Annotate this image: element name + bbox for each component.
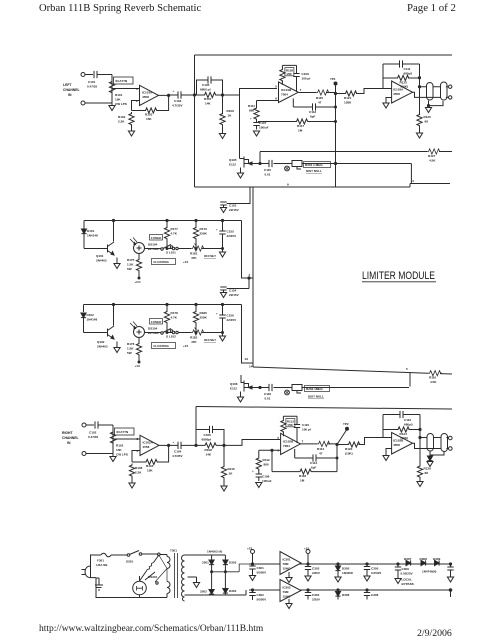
svg-text:C303: C303	[312, 567, 320, 571]
wire	[85, 75, 112, 104]
svg-text:R178: R178	[171, 311, 179, 315]
ground	[419, 127, 421, 134]
svg-text:0.47/35: 0.47/35	[88, 435, 98, 439]
svg-text:15K: 15K	[116, 448, 122, 452]
svg-text:4558: 4558	[142, 95, 149, 99]
svg-text:CHANNEL: CHANNEL	[63, 88, 80, 92]
capacitor C301	[249, 564, 267, 581]
svg-text:4.7/35V: 4.7/35V	[172, 104, 183, 108]
svg-text:+15: +15	[183, 344, 188, 348]
resistor R104	[145, 459, 159, 472]
svg-text:2.2K: 2.2K	[118, 120, 125, 124]
transformer T301 primary winding upper	[167, 549, 177, 569]
limiter box left edge	[252, 187, 254, 367]
offset row wire	[167, 249, 223, 253]
wire	[195, 94, 240, 96]
svg-text:14K: 14K	[205, 102, 211, 106]
wire R127 bus	[260, 152, 452, 164]
svg-text:1M: 1M	[300, 479, 305, 483]
ground input pot	[109, 103, 115, 111]
svg-text:3: 3	[136, 87, 138, 91]
svg-text:14K: 14K	[206, 453, 212, 457]
svg-text:1K: 1K	[228, 114, 233, 118]
svg-text:IC101B: IC101B	[281, 88, 292, 92]
capacitor C115	[264, 160, 272, 177]
svg-text:1N4748(4): 1N4748(4)	[422, 570, 436, 574]
svg-text:C305: C305	[371, 567, 379, 571]
svg-text:4: 4	[412, 179, 414, 183]
op-amp U3 output L	[392, 81, 413, 103]
resistor R180	[193, 305, 207, 333]
ground non-inverting	[383, 98, 392, 109]
svg-text:+15: +15	[183, 260, 188, 264]
svg-text:15HC: 15HC	[283, 595, 292, 599]
svg-text:S L102: S L102	[166, 335, 176, 339]
svg-text:C102: C102	[89, 431, 97, 435]
wire	[337, 438, 392, 445]
wire output to jacks	[413, 438, 450, 449]
svg-text:100 pf: 100 pf	[302, 77, 312, 81]
svg-text:4558: 4558	[393, 443, 400, 447]
label R202 DIST NULL	[305, 386, 330, 399]
wire bus below limiter	[253, 367, 452, 374]
svg-text:5W: 5W	[127, 267, 132, 271]
wire inverting chain	[257, 101, 279, 107]
rectifier diode D303	[200, 572, 214, 595]
ground non-inverting	[383, 449, 392, 461]
svg-text:Q105: Q105	[229, 158, 237, 162]
svg-text:2N4402: 2N4402	[96, 259, 107, 263]
diode D308	[420, 557, 428, 566]
capacitor C112	[400, 411, 413, 427]
svg-text:R115: R115	[316, 96, 323, 100]
resistor R116	[428, 371, 442, 384]
junction	[259, 386, 261, 388]
resistor R123	[383, 75, 420, 88]
svg-text:2501: 2501	[202, 561, 209, 565]
svg-text:14: 14	[249, 365, 253, 369]
junction	[193, 94, 195, 96]
rectifier diode D301	[202, 555, 214, 572]
ground	[112, 444, 114, 457]
resistor R101 input pot	[109, 80, 126, 106]
svg-text:C104: C104	[174, 450, 182, 454]
junction	[418, 86, 420, 88]
svg-text:1M: 1M	[298, 129, 303, 133]
capacitor C113 feedback	[293, 99, 335, 119]
svg-text:R108: R108	[205, 448, 213, 452]
switch S-L102	[145, 329, 177, 339]
svg-text:OFFSET: OFFSET	[204, 338, 216, 342]
resistor R111	[248, 104, 259, 121]
wire to C103	[169, 94, 195, 96]
capacitor C311	[447, 563, 453, 582]
ground	[237, 168, 243, 179]
svg-text:D303: D303	[229, 561, 237, 565]
wire module2 bus	[84, 305, 254, 364]
wire to C104	[169, 444, 196, 446]
wire	[252, 387, 292, 389]
wire feedback loop	[283, 416, 297, 443]
resistor R102	[118, 112, 134, 126]
resistor R105	[280, 68, 294, 82]
svg-text:7064: 7064	[281, 93, 288, 97]
svg-text:C103: C103	[174, 99, 182, 103]
svg-text:R118: R118	[299, 474, 306, 478]
svg-text:C156: C156	[227, 314, 235, 318]
svg-text:C101: C101	[88, 80, 96, 84]
diode D309	[422, 557, 441, 574]
svg-text:D304: D304	[229, 589, 237, 593]
svg-text:D306: D306	[342, 593, 350, 597]
resistor R178	[164, 305, 178, 333]
svg-text:TP1: TP1	[330, 77, 336, 81]
jack J2	[441, 82, 448, 100]
resistor R117 feedback	[258, 119, 336, 133]
jack pin top	[449, 436, 453, 440]
svg-text:S301: S301	[126, 560, 133, 564]
svg-text:FLOATING: FLOATING	[154, 260, 170, 264]
input jack terminal top	[81, 73, 85, 77]
svg-text:1N4003 (4): 1N4003 (4)	[207, 550, 222, 554]
capacitor C307 local bypass	[395, 563, 414, 586]
svg-text:C105: C105	[202, 83, 210, 87]
svg-text:1N4148: 1N4148	[87, 318, 98, 322]
wire left box edge	[194, 55, 196, 187]
svg-text:+: +	[173, 440, 175, 444]
wire primary	[91, 578, 168, 598]
pin 13	[245, 357, 253, 369]
wire -rail	[249, 589, 451, 591]
svg-text:6: 6	[275, 97, 277, 101]
svg-text:D305: D305	[342, 567, 350, 571]
regulator IC302	[280, 580, 301, 602]
svg-text:0.47/35: 0.47/35	[87, 85, 97, 89]
wire to Q101	[84, 248, 108, 250]
svg-text:R177: R177	[171, 227, 179, 231]
node RIGHT CHANNEL IN label	[62, 431, 79, 445]
primary crossover wires	[155, 555, 167, 585]
svg-text:R103: R103	[145, 113, 153, 117]
svg-text:128K: 128K	[344, 101, 352, 105]
svg-text:2/25V: 2/25V	[312, 571, 321, 575]
wire to op-amp	[113, 438, 140, 440]
junction	[419, 436, 421, 438]
svg-text:R179: R179	[200, 227, 208, 231]
wire	[302, 164, 411, 184]
svg-text:FLOATING: FLOATING	[154, 344, 170, 348]
svg-text:IC101A: IC101A	[142, 91, 153, 95]
svg-text:CW LPS: CW LPS	[116, 453, 128, 457]
wire collector to bus	[113, 221, 115, 242]
wire	[224, 440, 280, 446]
wire output to jacks	[413, 87, 449, 98]
secondary tap center	[188, 576, 197, 578]
zener D306	[335, 589, 349, 600]
label DS101	[148, 243, 159, 252]
svg-text:(10K): (10K)	[401, 85, 409, 89]
capacitor C304	[305, 589, 321, 602]
svg-text:E112: E112	[230, 387, 237, 391]
wire inverting chain	[259, 450, 281, 471]
svg-text:R126: R126	[424, 467, 432, 471]
ground emitter	[114, 258, 120, 269]
offset row wire	[167, 333, 223, 337]
regulator IC301 ground	[286, 572, 292, 583]
svg-text:6pF: 6pF	[310, 115, 316, 119]
label DS104	[148, 327, 159, 336]
ground	[131, 126, 133, 132]
jack J3	[427, 434, 434, 452]
svg-text:C301: C301	[257, 566, 265, 570]
ground	[256, 483, 262, 488]
transformer T301 primary winding lower	[167, 582, 170, 598]
capacitor C103	[172, 89, 183, 108]
svg-text:680p5: 680p5	[404, 423, 413, 427]
svg-text:+CC: +CC	[135, 280, 142, 284]
svg-text:R127: R127	[428, 154, 436, 158]
svg-text:FUSED: FUSED	[151, 320, 162, 324]
svg-text:R176: R176	[127, 342, 135, 346]
svg-text:T301: T301	[170, 549, 177, 553]
svg-text:+15: +15	[304, 547, 309, 551]
junction	[334, 162, 336, 164]
resistor R118 feedback	[272, 469, 337, 483]
svg-text:IN ATTN: IN ATTN	[117, 430, 129, 434]
ground C155	[219, 252, 225, 257]
svg-text:13: 13	[245, 357, 249, 361]
junction	[336, 443, 338, 445]
svg-text:C154: C154	[229, 289, 237, 293]
capacitor C106	[196, 426, 224, 446]
fuse F301	[96, 553, 111, 567]
resistor R120	[345, 442, 361, 456]
contact	[158, 553, 161, 556]
resistor R176	[127, 338, 142, 357]
switch S301	[126, 551, 142, 564]
svg-text:C110: C110	[302, 423, 309, 427]
svg-text:5: 5	[277, 436, 279, 440]
resistor R110b	[221, 445, 235, 479]
junction dots module2 bus	[166, 303, 168, 305]
wire	[196, 444, 224, 446]
resistor R177	[164, 221, 178, 249]
svg-text:+22: +22	[247, 547, 252, 551]
svg-text:+: +	[216, 228, 218, 232]
svg-text:R101: R101	[115, 93, 123, 97]
resistor R175	[127, 254, 142, 273]
pin 4 stub	[249, 273, 251, 277]
wire	[336, 89, 393, 94]
svg-text:C111: C111	[404, 67, 411, 71]
node LEFT CHANNEL IN label	[63, 83, 80, 97]
secondary tap top	[185, 554, 226, 556]
capacitor C107	[250, 117, 269, 130]
svg-text:7: 7	[302, 440, 304, 444]
svg-text:2502: 2502	[200, 590, 207, 594]
capacitor C111	[400, 60, 413, 75]
svg-text:LEFT: LEFT	[63, 83, 72, 87]
svg-text:R107: R107	[204, 97, 212, 101]
AC plug	[82, 566, 91, 578]
svg-text:R114: R114	[317, 447, 324, 451]
svg-text:15K: 15K	[115, 98, 121, 102]
wire top bus	[195, 54, 453, 56]
svg-text:C116: C116	[264, 392, 271, 396]
svg-text:RIGHT: RIGHT	[62, 431, 73, 435]
junction	[334, 92, 336, 94]
svg-text:DS104: DS104	[148, 243, 158, 247]
svg-text:250K: 250K	[200, 232, 208, 236]
svg-text:R117: R117	[297, 124, 304, 128]
wire rectifier mid rail	[212, 564, 249, 572]
svg-text:C115: C115	[264, 168, 271, 172]
transistor Q101	[96, 242, 114, 263]
svg-text:47K: 47K	[191, 340, 197, 344]
resistor R114	[317, 441, 331, 455]
svg-text:4558: 4558	[393, 92, 400, 96]
bypass C154	[220, 287, 249, 298]
input jack terminal bottom	[81, 101, 85, 105]
svg-text:15K: 15K	[147, 469, 153, 473]
junction end	[449, 589, 452, 597]
svg-text:+: +	[173, 89, 175, 93]
svg-text:R109: R109	[227, 109, 235, 113]
wire U5 output	[300, 443, 337, 446]
svg-text:FUSED: FUSED	[151, 236, 162, 240]
svg-text:7: 7	[300, 88, 302, 92]
resistor R103	[144, 108, 158, 121]
svg-text:D102: D102	[87, 313, 95, 317]
svg-text:47: 47	[318, 101, 322, 105]
svg-text:15K: 15K	[146, 117, 152, 121]
svg-text:1K: 1K	[229, 472, 234, 476]
svg-text:IC302: IC302	[283, 586, 291, 590]
svg-text:D101: D101	[87, 229, 95, 233]
svg-text:IC102A: IC102A	[143, 441, 154, 445]
wire inverting input	[132, 101, 140, 111]
rectifier diode D304	[223, 572, 237, 595]
jack J1	[427, 83, 434, 101]
wire	[302, 387, 409, 389]
ground emitter	[114, 342, 120, 353]
header page number	[407, 2, 456, 14]
capacitor C110	[294, 423, 312, 432]
+22 terminal	[247, 547, 255, 565]
transformer T301 secondary winding	[182, 555, 185, 601]
svg-text:R181: R181	[190, 252, 198, 256]
svg-text:BYPASS: BYPASS	[402, 582, 414, 586]
resistor R113	[281, 419, 295, 433]
svg-text:15K: 15K	[286, 72, 292, 76]
bypass C153	[220, 187, 250, 213]
svg-text:R102: R102	[116, 444, 124, 448]
svg-text:R110: R110	[228, 467, 235, 471]
wire box top bus	[195, 184, 451, 188]
capacitor C303	[305, 564, 321, 581]
svg-text:R125: R125	[424, 115, 432, 119]
neon lamp DS301	[133, 572, 155, 595]
svg-text:IC301: IC301	[283, 558, 291, 562]
svg-text:E112: E112	[229, 163, 236, 167]
resistor R108	[204, 443, 218, 457]
svg-text:680p5: 680p5	[404, 72, 413, 76]
jack pin bottom	[449, 447, 453, 451]
svg-text:R104: R104	[146, 464, 154, 468]
svg-text:+13: +13	[135, 364, 140, 368]
svg-text:Q106: Q106	[230, 382, 238, 386]
svg-text:3: 3	[137, 437, 139, 441]
resistor R107	[203, 92, 217, 105]
test point TP1	[330, 77, 337, 94]
svg-text:2.2K: 2.2K	[135, 471, 142, 475]
wire module1 bus	[84, 221, 253, 289]
capacitor C155	[216, 221, 237, 249]
svg-text:C114: C114	[310, 461, 317, 465]
trimpot R202	[285, 385, 302, 395]
wire long bus	[196, 407, 452, 410]
svg-text:OFFSET: OFFSET	[204, 254, 216, 258]
earth ground	[95, 578, 103, 590]
svg-text:100/uF: 100/uF	[262, 479, 272, 483]
svg-text:860: 860	[264, 463, 269, 467]
junction	[223, 444, 225, 446]
svg-text:22/15V: 22/15V	[229, 208, 240, 212]
FUSED boxed label	[150, 319, 163, 325]
svg-text:IN: IN	[67, 441, 71, 445]
resistor R301 to neon	[140, 556, 159, 581]
svg-text:2N4402: 2N4402	[97, 345, 108, 349]
center tap ground	[193, 577, 199, 588]
svg-text:IC102B: IC102B	[283, 440, 294, 444]
regulator IC302 ground	[286, 599, 292, 609]
pin 9	[287, 179, 414, 187]
ground	[253, 131, 259, 136]
capacitor C101	[87, 71, 97, 89]
switch contact	[172, 331, 174, 333]
transistor Q106 JFET	[230, 375, 252, 392]
ground C156	[219, 336, 225, 341]
svg-text:R106: R106	[135, 466, 143, 470]
capacitor C105	[197, 76, 223, 95]
svg-text:R116: R116	[429, 376, 436, 380]
FLOATING boxed label	[152, 259, 176, 265]
junction	[259, 162, 261, 164]
svg-text:R180: R180	[200, 311, 208, 315]
svg-text:C112: C112	[404, 418, 411, 422]
svg-text:1.5K: 1.5K	[127, 263, 134, 267]
resistor R109	[220, 109, 234, 126]
ground	[131, 477, 133, 483]
capacitor C156	[216, 305, 237, 333]
junction	[307, 563, 309, 565]
diode D101	[81, 228, 98, 249]
svg-text:15K: 15K	[287, 423, 293, 427]
op-amp U2 IC101B	[275, 82, 301, 103]
pin 5	[406, 367, 408, 371]
svg-text:6800pf: 6800pf	[202, 438, 213, 442]
svg-text:R120: R120	[345, 447, 353, 451]
svg-text:4: 4	[249, 273, 251, 277]
svg-text:C153: C153	[229, 204, 237, 208]
wire JFET gate feed	[239, 95, 241, 159]
svg-text:F301: F301	[97, 559, 104, 563]
op-amp U1a IC101A	[136, 85, 159, 105]
label 1N4003	[207, 550, 222, 554]
svg-text:C113: C113	[309, 110, 316, 114]
svg-text:CHANNEL: CHANNEL	[62, 436, 79, 440]
resistor R112	[256, 457, 270, 471]
